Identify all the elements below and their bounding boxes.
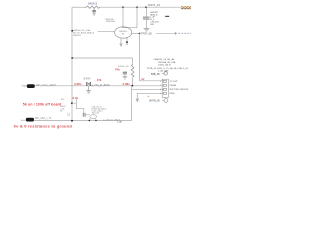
svg-text:B40_0A: B40_0A <box>92 111 99 114</box>
connector J2 pin numbers <box>160 81 162 95</box>
dark tick mark <box>165 16 169 17</box>
svg-text:CRGB: CRGB <box>170 85 177 87</box>
svg-text:B0: B0 <box>122 34 124 36</box>
svg-text:J1870_04: J1870_04 <box>148 3 161 7</box>
wire bottom net <box>34 120 131 122</box>
svg-text:P0P00A_0B_C6A: P0P00A_0B_C6A <box>158 61 176 64</box>
connector J2 pin squares <box>163 80 166 94</box>
transistor Q1 internal label <box>119 31 128 35</box>
wire connector pin3 net <box>131 86 163 121</box>
wire below C2 <box>146 19 148 28</box>
transistor Q1 ref labels <box>106 19 116 23</box>
connector J2 pin labels <box>170 81 190 95</box>
wire TP07_08 <box>156 32 175 34</box>
net connector mark orange <box>175 32 177 33</box>
dashed bus continuation <box>178 32 191 34</box>
C3 stub <box>124 74 126 76</box>
wire link to riser <box>72 102 76 104</box>
svg-text:1: 1 <box>160 81 162 83</box>
wire main horizontal y85.7 <box>22 85 164 87</box>
C2 label block <box>150 12 159 26</box>
svg-text:+: + <box>23 84 25 88</box>
resistor R2 47k (vertical) <box>131 64 134 77</box>
svg-text:BUTTON CONTROL: BUTTON CONTROL <box>170 89 190 91</box>
svg-text:B0: B0 <box>60 111 62 113</box>
transistor Q1 (oval body) <box>115 27 132 38</box>
capacitor C1 stub <box>93 8 95 10</box>
svg-text:JRC_C6A_1_7A: JRC_C6A_1_7A <box>35 117 52 120</box>
node junction at (132.3,85.7) <box>131 85 133 87</box>
svg-text:0v & 0 resistance to ground: 0v & 0 resistance to ground <box>14 124 73 129</box>
svg-text:+: + <box>22 118 24 122</box>
node junction at x137 <box>136 6 138 8</box>
right net-name text block <box>147 58 189 73</box>
svg-text:B40: B40 <box>61 99 64 101</box>
wire riser x76.3 <box>76 99 84 113</box>
wire TP net down to connector pin1 <box>140 34 164 81</box>
wire Q1 emitter output <box>131 33 140 35</box>
tiny labels near bus <box>67 113 70 117</box>
ground below C3 <box>123 77 128 79</box>
svg-text:3.28v: 3.28v <box>74 82 82 86</box>
Q2 stubs to bottom wire <box>89 118 96 120</box>
wire mid horizontal y58 <box>72 57 133 59</box>
node junction at (89.3,120.4) <box>89 120 91 122</box>
svg-text:B35: B35 <box>150 24 155 26</box>
capacitor C2 <box>143 17 150 19</box>
off-page connector circles top right <box>181 7 192 9</box>
Q2 ref text block <box>92 106 108 115</box>
svg-text:47k: 47k <box>115 68 120 72</box>
svg-text:5k on / 100k off board: 5k on / 100k off board <box>23 102 62 106</box>
wire left vertical bus <box>71 7 73 121</box>
svg-text:B4043: B4043 <box>84 78 92 81</box>
transistor Q2 (small oval) <box>90 115 97 119</box>
Q1 stub pin 2 with number box <box>126 38 128 41</box>
terminal circle bottom <box>164 99 168 103</box>
svg-text:B4B_08: B4B_08 <box>151 73 160 76</box>
svg-text:TV OUT: TV OUT <box>170 81 179 83</box>
svg-text:1_0B_0A0: 1_0B_0A0 <box>158 70 169 73</box>
diode D1 (crossed element on wire) <box>87 82 91 86</box>
svg-text:B4TN_00: B4TN_00 <box>150 99 161 102</box>
node A junction on left bus <box>71 30 73 32</box>
svg-text:B2: B2 <box>68 115 70 117</box>
node junction at (139.5,33.5) <box>139 33 141 35</box>
small ref text block left <box>60 99 65 112</box>
R2 lead to wire <box>131 77 134 86</box>
ground below C2 <box>144 29 150 31</box>
svg-text:1_0A: 1_0A <box>117 120 122 123</box>
svg-text:B04051: B04051 <box>73 35 81 37</box>
resistor R1 (horizontal) <box>84 6 100 8</box>
wire top net from left bus <box>72 6 84 8</box>
stray orange speck <box>148 96 149 97</box>
svg-text:PP1A_41_B10L_0_70_0A_0B_C6A_0_: PP1A_41_B10L_0_70_0A_0B_C6A_0_04 <box>147 67 189 70</box>
svg-text:J0000_0A_B: J0000_0A_B <box>158 64 171 67</box>
node junction at x123 <box>122 6 124 8</box>
net label 3 lines at node A <box>73 29 94 37</box>
svg-text:B45010a: B45010a <box>106 21 116 23</box>
ground arrow for pin4 <box>136 99 139 102</box>
capacitor C4 (dark body) <box>27 84 35 88</box>
terminal circle top <box>164 72 168 76</box>
ground below D1 <box>86 86 91 93</box>
wire dropper x123 to Q1 <box>122 7 124 27</box>
capacitor C6 (dark body) <box>26 118 34 122</box>
svg-text:3.38v: 3.38v <box>122 82 130 86</box>
svg-text:a_C6A_41_BACK: a_C6A_41_BACK <box>92 84 111 87</box>
svg-text:JRC_C6A_1_BACK: JRC_C6A_1_BACK <box>36 84 57 87</box>
svg-text:3.3v: 3.3v <box>72 96 78 100</box>
node junction at (72,103.2) <box>71 102 73 104</box>
capacitor C3 <box>123 72 127 74</box>
Q1 stub pin with ground arrow <box>120 38 122 44</box>
wire corner down to R2 <box>132 58 134 64</box>
wire top net to connector J1 <box>100 6 180 8</box>
svg-text:GND: GND <box>170 93 175 95</box>
ground below C1 <box>92 12 96 15</box>
wire into transistor Q1 base <box>98 31 115 33</box>
node junction at (96,120.4) <box>95 120 97 122</box>
wire C5 to Q2 <box>85 114 90 116</box>
node junction at (72,58) <box>71 57 73 59</box>
capacitor C5 bars <box>83 113 85 117</box>
wire tick to bottom terminal <box>162 99 164 101</box>
connector J2 body <box>162 79 168 97</box>
svg-text:C6A0101_04_0B_0A: C6A0101_04_0B_0A <box>153 58 174 61</box>
svg-text:TP07_08: TP07_08 <box>141 32 152 36</box>
node junction at x146 <box>145 6 147 8</box>
wire connector pin4 GND <box>137 93 163 99</box>
capacitor C1 <box>92 11 95 12</box>
capacitor C6 lead <box>21 119 27 121</box>
capacitor C2 branch stub <box>146 7 148 16</box>
svg-text:B45010: B45010 <box>88 1 98 5</box>
node junction at (72,120.6) <box>71 120 73 122</box>
wire tick to terminal <box>162 72 164 74</box>
wire dropper x137 to Q1 collector <box>122 7 137 27</box>
svg-text:47k: 47k <box>97 78 102 82</box>
